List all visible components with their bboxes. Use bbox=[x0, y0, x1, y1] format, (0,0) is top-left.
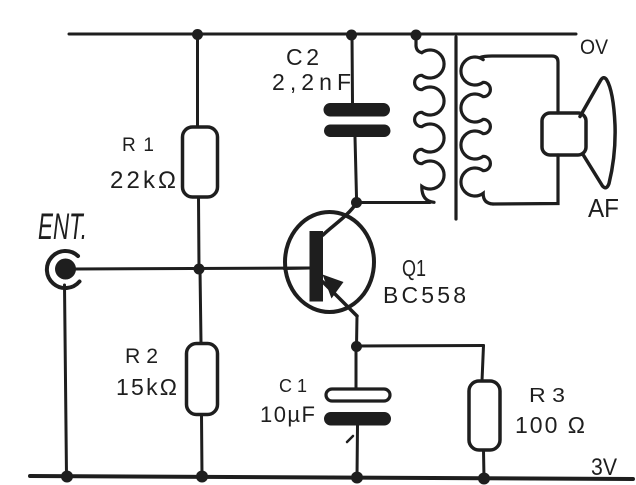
wire ENT ground lead down bbox=[65, 285, 67, 476]
node junction R1 / 0V rail bbox=[192, 29, 203, 40]
wire collector node to primary bottom bbox=[357, 201, 431, 204]
speaker AF cone bbox=[580, 78, 615, 188]
connector ENT input jack outer ring bbox=[47, 251, 80, 288]
capacitor C2 plate 1 bbox=[324, 103, 391, 117]
wire emitter node to R3 bbox=[357, 344, 484, 348]
svg-text:R1: R1 bbox=[122, 135, 154, 156]
svg-text:R 3: R 3 bbox=[529, 385, 565, 407]
wire C1 top lead bbox=[355, 347, 358, 390]
svg-text:100 Ω: 100 Ω bbox=[515, 412, 585, 438]
resistor R3 bbox=[469, 381, 500, 450]
transformer T1 secondary winding bbox=[461, 57, 493, 204]
resistor R2 bbox=[187, 344, 218, 415]
resistor R1 bbox=[183, 127, 218, 197]
svg-text:C2: C2 bbox=[286, 44, 319, 70]
transistor Q1 emitter arrow (PNP) bbox=[323, 275, 344, 299]
wire R1 bottom lead bbox=[197, 197, 201, 269]
stray pen mark near C1 bbox=[347, 436, 353, 442]
svg-text:R 2: R 2 bbox=[125, 345, 158, 368]
wire primary top lead bbox=[416, 35, 422, 53]
svg-text:10µF: 10µF bbox=[260, 402, 315, 427]
wire C2 top lead bbox=[351, 35, 355, 103]
wire input signal to base bbox=[74, 268, 310, 269]
svg-text:22kΩ: 22kΩ bbox=[110, 167, 176, 194]
svg-text:OV: OV bbox=[580, 36, 608, 59]
wire base lead inside circle bbox=[284, 267, 310, 271]
connector ENT input jack center pin bbox=[55, 259, 76, 280]
svg-text:3V: 3V bbox=[591, 454, 617, 481]
wire C2 bottom lead bbox=[355, 137, 357, 197]
transistor Q1 body circle bbox=[285, 212, 374, 312]
wire C1 bottom lead bbox=[356, 426, 360, 478]
wire secondary top to speaker bbox=[480, 56, 558, 113]
wire 0V top rail bbox=[69, 33, 576, 36]
transformer core bbox=[454, 37, 457, 219]
wire R3 top lead bbox=[482, 346, 484, 382]
svg-text:AF: AF bbox=[588, 193, 619, 223]
svg-text:15kΩ: 15kΩ bbox=[116, 374, 177, 400]
capacitor C1 plate 1 (outline) bbox=[326, 389, 390, 401]
wire R3 bottom lead bbox=[482, 450, 486, 479]
transistor Q1 emitter stroke bbox=[323, 282, 357, 316]
node transformer primary top junction bbox=[411, 30, 422, 41]
wire emitter lead down bbox=[355, 316, 359, 347]
speaker AF driver box bbox=[542, 113, 586, 155]
transistor Q1 base bar bbox=[310, 231, 324, 302]
transistor Q1 collector stroke bbox=[323, 203, 357, 235]
capacitor C2 plate 2 bbox=[324, 125, 391, 138]
node C2 top junction on 0V rail bbox=[346, 30, 357, 41]
wire R2 bottom lead bbox=[200, 415, 204, 477]
wire secondary bottom to speaker bbox=[493, 155, 558, 204]
svg-text:BC558: BC558 bbox=[383, 282, 466, 308]
svg-text:2,2nF: 2,2nF bbox=[272, 69, 351, 95]
transformer T1 primary winding bbox=[415, 50, 444, 202]
svg-text:C1: C1 bbox=[279, 376, 307, 396]
node collector junction bbox=[351, 197, 362, 208]
node emitter junction bbox=[351, 341, 362, 352]
node bottom rail / R2 junction bbox=[196, 471, 208, 483]
node bottom rail / R3 junction bbox=[478, 473, 490, 485]
svg-text:ENT.: ENT. bbox=[38, 206, 87, 247]
wire 3V bottom rail bbox=[30, 476, 633, 479]
node bottom rail / C1 junction bbox=[351, 472, 363, 484]
node bottom rail / ENT ground junction bbox=[61, 471, 73, 483]
node input junction (R1/R2/base) bbox=[194, 264, 205, 275]
resistor R2 top lead bbox=[200, 269, 201, 343]
capacitor C1 plate 2 (solid) bbox=[324, 412, 391, 426]
wire R1 top lead bbox=[196, 35, 199, 128]
svg-text:Q1: Q1 bbox=[402, 255, 426, 281]
